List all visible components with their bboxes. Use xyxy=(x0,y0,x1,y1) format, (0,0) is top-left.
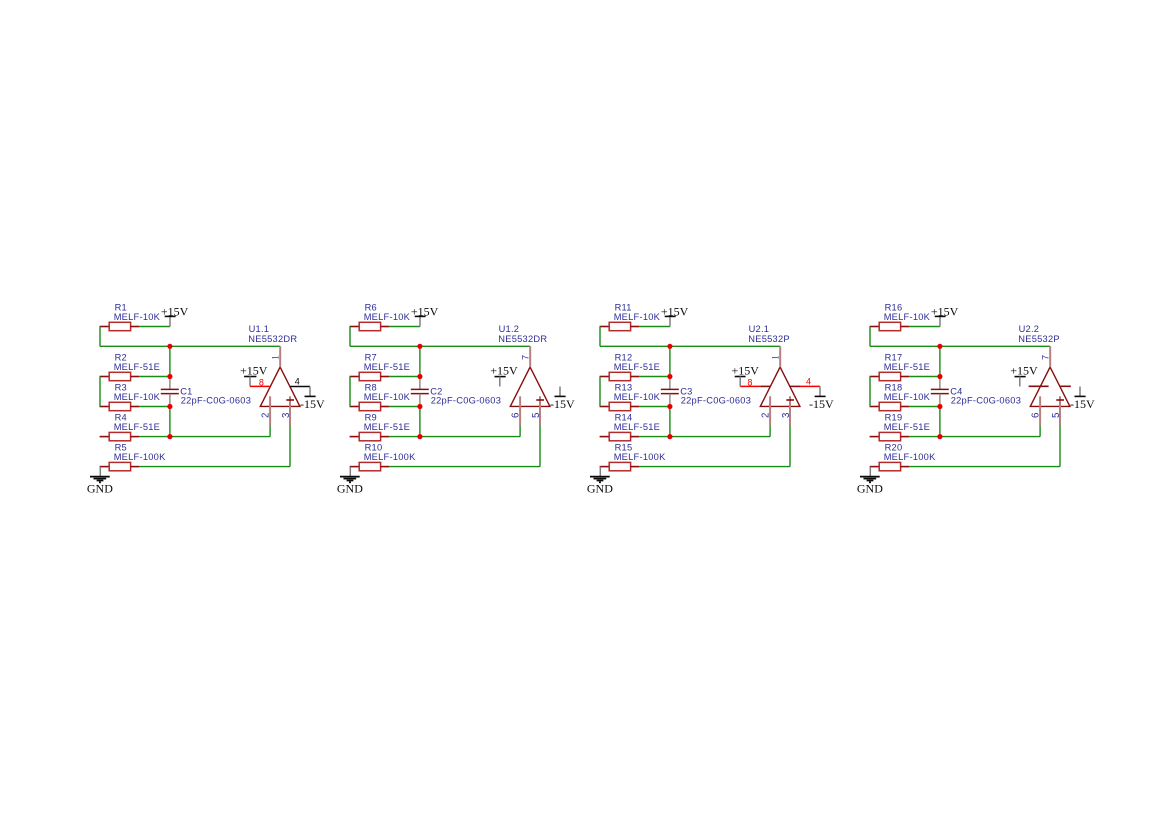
svg-text:8: 8 xyxy=(259,377,264,387)
plus mark non-inverting input xyxy=(786,399,794,401)
svg-text:R5: R5 xyxy=(115,442,127,452)
svg-text:5: 5 xyxy=(531,413,542,418)
wire node column lower xyxy=(419,407,421,437)
svg-text:MELF-10K: MELF-10K xyxy=(614,312,661,322)
wire R11 to +15V supply xyxy=(639,326,670,328)
svg-text:R7: R7 xyxy=(365,352,377,362)
power -15V supply symbol (floating) xyxy=(550,387,575,411)
svg-text:MELF-51E: MELF-51E xyxy=(114,422,160,432)
wire R15 to non-inverting input xyxy=(639,466,790,468)
svg-text:-15V: -15V xyxy=(1070,397,1095,411)
svg-text:R3: R3 xyxy=(115,382,127,392)
svg-text:R20: R20 xyxy=(885,442,903,452)
wire left vertical R7-R8 xyxy=(349,377,351,407)
wire node column lower xyxy=(669,407,671,437)
wire non-inverting input drop xyxy=(789,426,791,467)
svg-text:R2: R2 xyxy=(115,352,127,362)
junction inverting node xyxy=(167,434,172,439)
wire inverting input drop xyxy=(1039,426,1041,437)
op-amp U2.2 xyxy=(1030,367,1070,406)
svg-text:R19: R19 xyxy=(885,412,903,422)
resistor R4 xyxy=(100,432,140,440)
svg-text:R14: R14 xyxy=(615,412,633,422)
junction cap bottom node xyxy=(167,404,172,409)
svg-text:3: 3 xyxy=(281,413,292,418)
svg-text:MELF-100K: MELF-100K xyxy=(114,452,166,462)
capacitor C4 xyxy=(931,377,949,407)
resistor R15 xyxy=(600,462,640,470)
capacitor C2 xyxy=(411,377,429,407)
svg-text:U1.2: U1.2 xyxy=(499,324,520,334)
svg-text:-15V: -15V xyxy=(809,397,834,411)
pin 7 output (U2.2) xyxy=(1049,346,1051,367)
pin 1 output (U1.1) xyxy=(279,346,281,367)
resistor R3 xyxy=(100,402,140,410)
svg-text:R10: R10 xyxy=(365,442,383,452)
svg-text:GND: GND xyxy=(587,481,613,495)
wire pin 8 to +15V xyxy=(740,385,760,387)
svg-text:MELF-10K: MELF-10K xyxy=(614,392,661,402)
wire R1 to +15V supply xyxy=(139,326,170,328)
resistor R8 xyxy=(350,402,390,410)
wire R13 to node xyxy=(639,406,670,408)
wire node column upper xyxy=(169,346,171,376)
svg-text:NE5532P: NE5532P xyxy=(748,334,790,344)
svg-text:MELF-100K: MELF-100K xyxy=(884,452,936,462)
junction feedback node xyxy=(937,344,942,349)
svg-text:MELF-10K: MELF-10K xyxy=(884,392,931,402)
svg-text:5: 5 xyxy=(1051,413,1062,418)
wire non-inverting input drop xyxy=(539,426,541,467)
wire node to inverting input xyxy=(940,436,1040,438)
wire R5 to non-inverting input xyxy=(139,466,290,468)
wire left vertical R1 xyxy=(99,327,101,347)
resistor R7 xyxy=(350,372,390,380)
resistor R16 xyxy=(870,322,910,330)
svg-text:R6: R6 xyxy=(365,302,377,312)
svg-text:R8: R8 xyxy=(365,382,377,392)
wire node to inverting input xyxy=(420,436,520,438)
svg-text:R18: R18 xyxy=(885,382,903,392)
svg-text:R17: R17 xyxy=(885,352,903,362)
pin 8 stub xyxy=(760,385,770,387)
wire feedback node to op-amp output xyxy=(350,345,530,347)
wire R2 to node xyxy=(139,376,170,378)
svg-text:MELF-51E: MELF-51E xyxy=(884,362,930,372)
wire R18 to node xyxy=(909,406,940,408)
wire left vertical R2-R3 xyxy=(99,377,101,407)
svg-text:NE5532P: NE5532P xyxy=(1018,334,1060,344)
wire R6 to +15V supply xyxy=(389,326,420,328)
svg-text:U2.1: U2.1 xyxy=(749,324,770,334)
junction cap top node xyxy=(937,374,942,379)
svg-text:R13: R13 xyxy=(615,382,633,392)
power +15V supply symbol at R16 xyxy=(931,304,959,326)
resistor R6 xyxy=(350,322,390,330)
wire R20 to non-inverting input xyxy=(909,466,1060,468)
junction cap bottom node xyxy=(937,404,942,409)
wire R19 to node xyxy=(909,436,940,438)
svg-text:2: 2 xyxy=(761,413,772,418)
wire inverting input drop xyxy=(519,426,521,437)
wire R9 to node xyxy=(389,436,420,438)
resistor R11 xyxy=(600,322,640,330)
svg-text:2: 2 xyxy=(261,413,272,418)
svg-text:1: 1 xyxy=(770,355,780,360)
wire R16 to +15V supply xyxy=(909,326,940,328)
power +15V supply symbol at R11 xyxy=(661,304,689,326)
wire R10 to non-inverting input xyxy=(389,466,540,468)
svg-text:+15V: +15V xyxy=(161,304,189,318)
op-amp U1.2 xyxy=(510,367,550,406)
power +15V supply symbol at pin 8 xyxy=(240,364,268,387)
ground symbol GND xyxy=(587,467,613,496)
svg-text:+15V: +15V xyxy=(240,364,268,378)
svg-text:1: 1 xyxy=(270,355,280,360)
svg-text:22pF-C0G-0603: 22pF-C0G-0603 xyxy=(681,396,751,406)
wire node column upper xyxy=(939,346,941,376)
junction cap top node xyxy=(667,374,672,379)
svg-text:6: 6 xyxy=(511,413,522,418)
svg-text:+15V: +15V xyxy=(661,304,689,318)
svg-text:R16: R16 xyxy=(885,302,903,312)
svg-text:MELF-100K: MELF-100K xyxy=(614,452,666,462)
pin 4 stub xyxy=(790,385,800,387)
resistor R1 xyxy=(100,322,140,330)
wire left vertical R11 xyxy=(599,327,601,347)
resistor R20 xyxy=(870,462,910,470)
wire node to inverting input xyxy=(670,436,770,438)
svg-text:7: 7 xyxy=(520,355,530,360)
ground symbol GND xyxy=(87,467,113,496)
svg-text:R15: R15 xyxy=(615,442,633,452)
pin 7 output (U1.2) xyxy=(529,346,531,367)
wire inverting input drop xyxy=(769,426,771,437)
pin 5 non-inverting input (U1.2) xyxy=(539,396,541,425)
svg-text:MELF-10K: MELF-10K xyxy=(364,312,411,322)
wire R7 to node xyxy=(389,376,420,378)
wire non-inverting input drop xyxy=(289,426,291,467)
svg-text:NE5532DR: NE5532DR xyxy=(498,334,547,344)
junction feedback node xyxy=(417,344,422,349)
power +15V supply symbol (floating) xyxy=(490,364,518,387)
wire R17 to node xyxy=(909,376,940,378)
wire R3 to node xyxy=(139,406,170,408)
resistor R19 xyxy=(870,432,910,440)
svg-text:GND: GND xyxy=(87,481,113,495)
wire node column upper xyxy=(419,346,421,376)
svg-text:MELF-51E: MELF-51E xyxy=(884,422,930,432)
svg-text:MELF-51E: MELF-51E xyxy=(114,362,160,372)
svg-text:3: 3 xyxy=(781,413,792,418)
svg-text:+15V: +15V xyxy=(490,364,518,378)
pin 3 non-inverting input (U1.1) xyxy=(289,396,291,425)
svg-text:4: 4 xyxy=(295,376,300,386)
wire pin 4 to -15V xyxy=(290,386,310,388)
resistor R5 xyxy=(100,462,140,470)
power +15V supply symbol at R1 xyxy=(161,304,189,326)
svg-text:GND: GND xyxy=(857,481,883,495)
power -15V supply symbol at pin 4 xyxy=(300,387,325,411)
junction cap bottom node xyxy=(667,404,672,409)
resistor R13 xyxy=(600,402,640,410)
wire R12 to node xyxy=(639,376,670,378)
power +15V supply symbol at R6 xyxy=(411,304,439,326)
ground symbol GND xyxy=(857,467,883,496)
resistor R2 xyxy=(100,372,140,380)
svg-text:+15V: +15V xyxy=(931,304,959,318)
junction cap bottom node xyxy=(417,404,422,409)
power -15V supply symbol at pin 4 xyxy=(809,386,834,411)
svg-text:-15V: -15V xyxy=(300,397,325,411)
pin 5 non-inverting input (U2.2) xyxy=(1059,396,1061,425)
wire left vertical R6 xyxy=(349,327,351,347)
wire pin 4 to -15V xyxy=(800,385,820,387)
resistor R17 xyxy=(870,372,910,380)
svg-text:+15V: +15V xyxy=(411,304,439,318)
resistor R10 xyxy=(350,462,390,470)
svg-text:22pF-C0G-0603: 22pF-C0G-0603 xyxy=(431,396,501,406)
junction cap top node xyxy=(167,374,172,379)
svg-text:MELF-51E: MELF-51E xyxy=(614,362,660,372)
svg-text:MELF-51E: MELF-51E xyxy=(364,362,410,372)
svg-text:+15V: +15V xyxy=(732,364,760,378)
wire feedback node to op-amp output xyxy=(600,345,780,347)
svg-text:-15V: -15V xyxy=(550,397,575,411)
wire left vertical R16 xyxy=(869,327,871,347)
pin 1 output (U2.1) xyxy=(779,346,781,367)
svg-text:R12: R12 xyxy=(615,352,633,362)
wire node column upper xyxy=(669,346,671,376)
svg-text:R9: R9 xyxy=(365,412,377,422)
junction feedback node xyxy=(167,344,172,349)
wire node column lower xyxy=(169,407,171,437)
pin 8 power stub xyxy=(1029,385,1049,387)
wire left vertical R17-R18 xyxy=(869,377,871,407)
junction inverting node xyxy=(937,434,942,439)
op-amp U2.1 xyxy=(760,367,800,406)
power -15V supply symbol (floating) xyxy=(1070,387,1095,411)
svg-text:R4: R4 xyxy=(115,412,127,422)
svg-text:8: 8 xyxy=(747,377,752,387)
power +15V supply symbol at pin 8 xyxy=(732,364,760,387)
wire non-inverting input drop xyxy=(1059,426,1061,467)
svg-text:22pF-C0G-0603: 22pF-C0G-0603 xyxy=(181,396,251,406)
resistor R18 xyxy=(870,402,910,410)
capacitor C3 xyxy=(661,377,679,407)
svg-text:MELF-100K: MELF-100K xyxy=(364,452,416,462)
svg-text:MELF-51E: MELF-51E xyxy=(364,422,410,432)
wire feedback node to op-amp output xyxy=(870,345,1050,347)
svg-text:U1.1: U1.1 xyxy=(249,324,270,334)
svg-text:MELF-10K: MELF-10K xyxy=(114,312,161,322)
junction inverting node xyxy=(667,434,672,439)
wire pin 8 to +15V xyxy=(250,385,270,387)
junction cap top node xyxy=(417,374,422,379)
wire node column lower xyxy=(939,407,941,437)
svg-text:4: 4 xyxy=(806,376,811,386)
pin 3 non-inverting input (U2.1) xyxy=(789,396,791,425)
svg-text:+15V: +15V xyxy=(1010,364,1038,378)
pin 6 inverting input (U1.2) xyxy=(519,396,521,425)
wire feedback node to op-amp output xyxy=(100,345,280,347)
svg-text:22pF-C0G-0603: 22pF-C0G-0603 xyxy=(951,396,1021,406)
junction inverting node xyxy=(417,434,422,439)
svg-text:7: 7 xyxy=(1040,355,1050,360)
resistor R12 xyxy=(600,372,640,380)
op-amp U1.1 xyxy=(260,367,300,406)
svg-text:U2.2: U2.2 xyxy=(1019,324,1040,334)
resistor R14 xyxy=(600,432,640,440)
junction feedback node xyxy=(667,344,672,349)
power +15V supply symbol (floating) xyxy=(1010,364,1038,387)
plus mark non-inverting input xyxy=(1056,399,1064,401)
wire R8 to node xyxy=(389,406,420,408)
ground symbol GND xyxy=(337,467,363,496)
svg-text:NE5532DR: NE5532DR xyxy=(248,334,297,344)
resistor R9 xyxy=(350,432,390,440)
wire inverting input drop xyxy=(269,426,271,437)
capacitor C1 xyxy=(161,377,179,407)
svg-text:MELF-10K: MELF-10K xyxy=(364,392,411,402)
svg-text:R1: R1 xyxy=(115,302,127,312)
svg-text:6: 6 xyxy=(1031,413,1042,418)
svg-text:MELF-51E: MELF-51E xyxy=(614,422,660,432)
wire left vertical R12-R13 xyxy=(599,377,601,407)
svg-text:MELF-10K: MELF-10K xyxy=(114,392,161,402)
svg-text:R11: R11 xyxy=(615,302,632,312)
pin 4 power stub xyxy=(1060,385,1071,387)
pin 2 inverting input (U1.1) xyxy=(269,396,271,425)
wire node to inverting input xyxy=(170,436,270,438)
pin 6 inverting input (U2.2) xyxy=(1039,396,1041,425)
plus mark non-inverting input xyxy=(286,399,294,401)
plus mark non-inverting input xyxy=(536,399,544,401)
svg-text:GND: GND xyxy=(337,481,363,495)
wire R14 to node xyxy=(639,436,670,438)
pin 2 inverting input (U2.1) xyxy=(769,396,771,425)
wire R4 to node xyxy=(139,436,170,438)
svg-text:MELF-10K: MELF-10K xyxy=(884,312,931,322)
